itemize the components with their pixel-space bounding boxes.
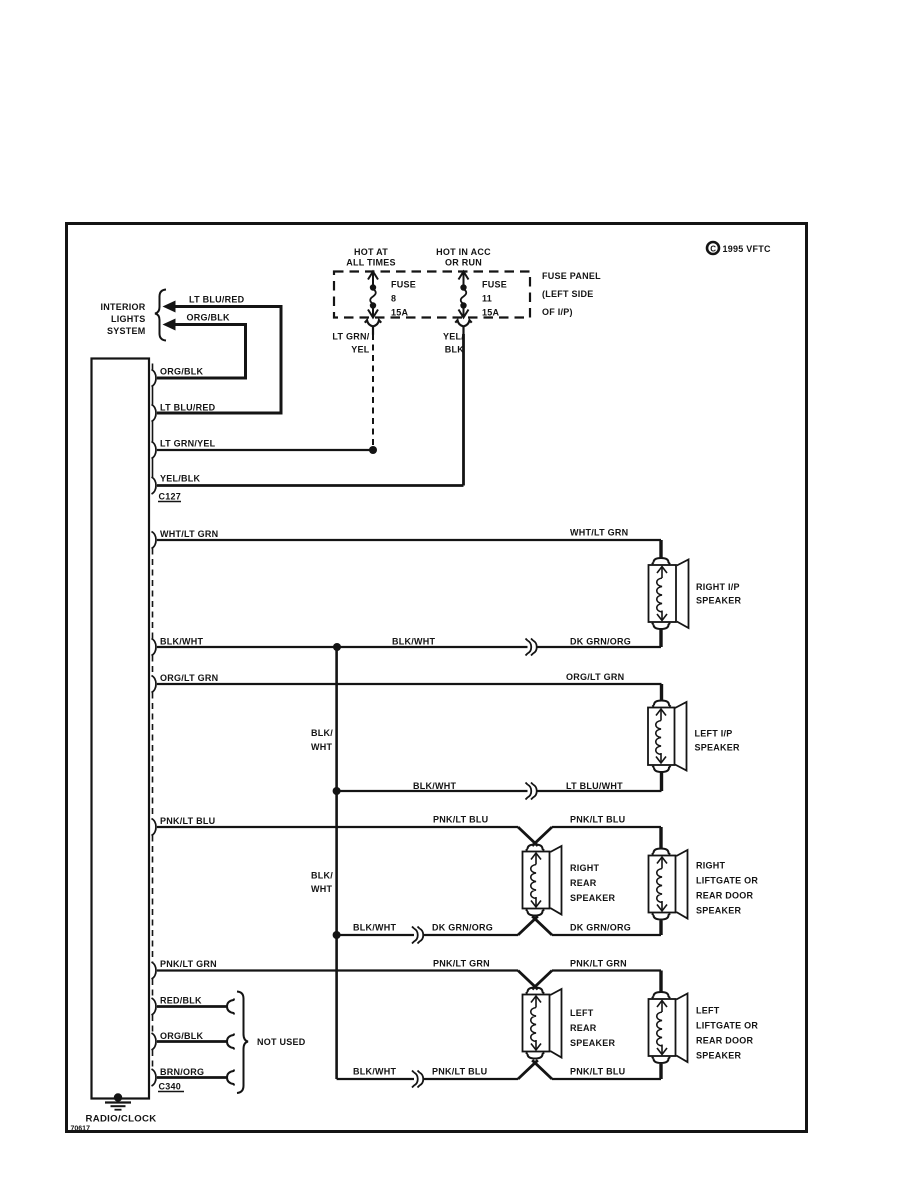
svg-text:70617: 70617 bbox=[71, 1126, 91, 1133]
label FUSE PANEL (LEFT SIDE OF I/P) bbox=[542, 271, 601, 317]
wire BLK/WHT vertical bus bbox=[335, 647, 338, 1079]
svg-text:WHT: WHT bbox=[311, 884, 332, 894]
wire diagonal from left rear speaker bottom left bbox=[518, 1060, 538, 1079]
svg-text:WHT: WHT bbox=[311, 742, 332, 752]
radio/clock box U1 bbox=[92, 359, 150, 1099]
connector C127 pin bumps bbox=[152, 370, 157, 495]
label HOT AT ALL TIMES bbox=[346, 247, 396, 268]
fuse F11 symbol bbox=[459, 272, 469, 318]
svg-text:ORG/BLK: ORG/BLK bbox=[160, 1031, 203, 1041]
svg-text:1995 VFTC: 1995 VFTC bbox=[723, 244, 772, 254]
ground bbox=[105, 1093, 131, 1109]
connector at left liftgate speaker top bbox=[652, 992, 670, 998]
wire BLK/WHT row3 bbox=[337, 934, 414, 936]
fuse panel dashed box bbox=[334, 272, 530, 318]
connector C340 label bbox=[158, 1082, 184, 1092]
wire PNK/LT GRN left bbox=[157, 969, 518, 971]
svg-text:LT BLU/WHT: LT BLU/WHT bbox=[566, 781, 623, 791]
svg-text:LIGHTS: LIGHTS bbox=[111, 314, 146, 324]
wire label YEL/ BLK bbox=[443, 332, 464, 355]
connector at left rear speaker top bbox=[526, 988, 544, 994]
svg-text:C127: C127 bbox=[159, 492, 182, 502]
wire PNK/LT BLU left bbox=[157, 826, 518, 828]
wire ORG/BLK not used bbox=[157, 1040, 228, 1043]
svg-text:RADIO/CLOCK: RADIO/CLOCK bbox=[86, 1114, 157, 1125]
terminal at BRN/ORG end bbox=[227, 1070, 234, 1086]
svg-text:C340: C340 bbox=[159, 1082, 182, 1092]
label BLK/ WHT upper bbox=[311, 728, 333, 752]
wire PNK/LT BLU row4 left bbox=[424, 1078, 518, 1080]
inline splice row4 bbox=[412, 1071, 423, 1088]
svg-text:SPEAKER: SPEAKER bbox=[696, 596, 742, 606]
wire LT BLU/WHT row2 bbox=[538, 790, 662, 792]
wire diagonal from left rear speaker bottom right bbox=[532, 1060, 552, 1079]
brace at interior lights system bbox=[155, 290, 166, 341]
svg-text:ORG/LT GRN: ORG/LT GRN bbox=[566, 672, 624, 682]
wire diagonal from right rear speaker bottom left bbox=[518, 916, 538, 935]
svg-text:8: 8 bbox=[391, 294, 396, 304]
svg-text:OF I/P): OF I/P) bbox=[542, 307, 573, 317]
wire diagonal from right rear speaker bottom right bbox=[532, 916, 552, 935]
connector C340 strip dashed line bbox=[152, 549, 154, 1070]
svg-text:DK GRN/ORG: DK GRN/ORG bbox=[570, 637, 631, 647]
svg-text:FUSE: FUSE bbox=[391, 280, 416, 290]
svg-text:PNK/LT BLU: PNK/LT BLU bbox=[433, 815, 488, 825]
brace not used group bbox=[237, 992, 248, 1094]
svg-text:DK GRN/ORG: DK GRN/ORG bbox=[570, 923, 631, 933]
svg-text:FUSE: FUSE bbox=[482, 280, 507, 290]
svg-text:11: 11 bbox=[482, 294, 492, 304]
junction dot LT GRN/YEL bbox=[369, 446, 377, 454]
svg-text:PNK/LT BLU: PNK/LT BLU bbox=[432, 1067, 487, 1077]
svg-text:PNK/LT BLU: PNK/LT BLU bbox=[570, 815, 625, 825]
svg-text:RED/BLK: RED/BLK bbox=[160, 996, 202, 1006]
fuse F11 output connector bbox=[455, 320, 471, 335]
svg-text:ORG/LT GRN: ORG/LT GRN bbox=[160, 673, 218, 683]
wire DK GRN/ORG row3 right bbox=[552, 934, 661, 936]
svg-text:LEFT: LEFT bbox=[696, 1006, 720, 1016]
wire from right I/P speaker bottom bbox=[659, 629, 662, 647]
terminal at ORG/BLK end bbox=[227, 1034, 234, 1050]
left rear speaker SP5 bbox=[523, 989, 562, 1058]
wire YEL/BLK horizontal bbox=[157, 484, 464, 487]
svg-text:REAR DOOR: REAR DOOR bbox=[696, 1036, 754, 1046]
wire diagonal into right rear speaker top bbox=[518, 827, 538, 846]
wire from right liftgate speaker bottom bbox=[659, 921, 662, 936]
svg-text:BLK/: BLK/ bbox=[311, 728, 333, 738]
svg-text:YEL: YEL bbox=[351, 345, 370, 355]
wire LT GRN/YEL dashed drop from fuse 8 bbox=[372, 334, 374, 446]
wire drop to right I/P speaker bbox=[659, 540, 662, 558]
wire ORG/BLK upper run bbox=[157, 325, 246, 379]
svg-text:HOT IN ACC: HOT IN ACC bbox=[436, 247, 491, 257]
svg-text:WHT/LT GRN: WHT/LT GRN bbox=[570, 528, 628, 538]
connector at left liftgate speaker bottom bbox=[652, 1057, 670, 1063]
svg-text:BLK/WHT: BLK/WHT bbox=[392, 637, 435, 647]
svg-text:BLK/: BLK/ bbox=[311, 871, 333, 881]
svg-text:LEFT: LEFT bbox=[570, 1008, 594, 1018]
inline splice row1 bbox=[526, 639, 537, 656]
junction dot BLK/WHT row2 bbox=[333, 787, 341, 795]
label LEFT LIFTGATE OR REAR DOOR SPEAKER bbox=[696, 1006, 758, 1061]
svg-text:BLK/WHT: BLK/WHT bbox=[413, 781, 456, 791]
connector at right rear speaker bottom bbox=[526, 909, 544, 915]
wire BLK/WHT row1 left bbox=[157, 646, 528, 648]
fuse F8 symbol bbox=[368, 272, 378, 318]
svg-text:REAR DOOR: REAR DOOR bbox=[696, 891, 754, 901]
wire LT GRN/YEL bbox=[157, 449, 373, 451]
connector C127 label bbox=[158, 492, 181, 502]
svg-text:SPEAKER: SPEAKER bbox=[696, 1051, 742, 1061]
svg-text:WHT/LT GRN: WHT/LT GRN bbox=[160, 529, 218, 539]
svg-text:FUSE PANEL: FUSE PANEL bbox=[542, 271, 601, 281]
svg-text:BRN/ORG: BRN/ORG bbox=[160, 1067, 204, 1077]
label LEFT REAR SPEAKER bbox=[570, 1008, 616, 1048]
left I/P speaker SP2 bbox=[648, 702, 687, 771]
svg-text:PNK/LT GRN: PNK/LT GRN bbox=[160, 959, 217, 969]
right rear speaker SP3 bbox=[523, 846, 562, 915]
wire from left liftgate speaker bottom bbox=[659, 1064, 662, 1079]
svg-text:RIGHT I/P: RIGHT I/P bbox=[696, 582, 740, 592]
wire BRN/ORG bbox=[157, 1076, 228, 1079]
label RIGHT LIFTGATE OR REAR DOOR SPEAKER bbox=[696, 861, 758, 916]
connector C127 strip line bbox=[152, 364, 154, 478]
fuse F11 label FUSE 11 15A bbox=[482, 280, 507, 318]
svg-text:LIFTGATE OR: LIFTGATE OR bbox=[696, 1021, 758, 1031]
svg-text:SPEAKER: SPEAKER bbox=[570, 1038, 616, 1048]
svg-text:C: C bbox=[710, 244, 716, 253]
svg-text:LT GRN/YEL: LT GRN/YEL bbox=[160, 439, 216, 449]
wire RED/BLK bbox=[157, 1005, 228, 1008]
svg-text:LT BLU/RED: LT BLU/RED bbox=[189, 295, 245, 305]
junction dot BLK/WHT row3 bbox=[333, 931, 341, 939]
svg-text:ALL TIMES: ALL TIMES bbox=[346, 258, 396, 268]
fuse F8 label FUSE 8 15A bbox=[391, 280, 416, 318]
wire from left I/P speaker bottom bbox=[660, 772, 663, 791]
svg-text:YEL/: YEL/ bbox=[443, 332, 464, 342]
svg-text:BLK/WHT: BLK/WHT bbox=[160, 637, 203, 647]
label INTERIOR LIGHTS SYSTEM bbox=[100, 302, 145, 336]
svg-text:SPEAKER: SPEAKER bbox=[695, 743, 741, 753]
label RIGHT I/P SPEAKER bbox=[696, 582, 742, 606]
svg-text:REAR: REAR bbox=[570, 878, 597, 888]
connector at right liftgate speaker top bbox=[652, 849, 670, 855]
wire drop to left liftgate speaker bbox=[659, 971, 662, 992]
wire diagonal from right rear speaker top bbox=[532, 827, 552, 846]
svg-text:SPEAKER: SPEAKER bbox=[696, 906, 742, 916]
label BLK/ WHT lower bbox=[311, 871, 333, 895]
right liftgate speaker SP4 bbox=[649, 850, 688, 919]
arrow LT BLU/RED to interior lights bbox=[163, 301, 176, 313]
border frame bbox=[67, 224, 807, 1132]
wire LT BLU/RED upper run bbox=[157, 307, 281, 414]
svg-text:BLK/WHT: BLK/WHT bbox=[353, 923, 396, 933]
svg-text:RIGHT: RIGHT bbox=[570, 863, 600, 873]
svg-text:15A: 15A bbox=[391, 308, 409, 318]
svg-text:ORG/BLK: ORG/BLK bbox=[187, 313, 230, 323]
wire WHT/LT GRN bbox=[157, 539, 661, 541]
wire drop to right liftgate speaker bbox=[659, 827, 662, 848]
svg-text:SYSTEM: SYSTEM bbox=[107, 326, 146, 336]
svg-text:PNK/LT BLU: PNK/LT BLU bbox=[570, 1067, 625, 1077]
inline splice row2 bbox=[526, 783, 537, 800]
label RIGHT REAR SPEAKER bbox=[570, 863, 616, 903]
wire label LT GRN/ YEL bbox=[332, 332, 369, 355]
left liftgate speaker SP6 bbox=[649, 994, 688, 1063]
connector at right I/P speaker bottom bbox=[652, 623, 670, 629]
wire BLK/WHT row2 bbox=[337, 790, 528, 792]
svg-text:LIFTGATE OR: LIFTGATE OR bbox=[696, 876, 758, 886]
wire diagonal into left rear speaker top bbox=[518, 971, 538, 990]
svg-text:15A: 15A bbox=[482, 308, 500, 318]
label HOT IN ACC OR RUN bbox=[436, 247, 491, 268]
svg-text:PNK/LT GRN: PNK/LT GRN bbox=[570, 959, 627, 969]
svg-text:ORG/BLK: ORG/BLK bbox=[160, 367, 203, 377]
wire YEL/BLK drop from fuse 11 bbox=[462, 334, 465, 486]
svg-text:BLK/WHT: BLK/WHT bbox=[353, 1067, 396, 1077]
svg-text:INTERIOR: INTERIOR bbox=[100, 302, 145, 312]
wire PNK/LT BLU to liftgate bbox=[552, 826, 661, 828]
svg-text:PNK/LT BLU: PNK/LT BLU bbox=[160, 816, 215, 826]
svg-text:OR RUN: OR RUN bbox=[445, 258, 482, 268]
arrow ORG/BLK to interior lights bbox=[163, 319, 176, 331]
wire diagonal from left rear speaker top bbox=[532, 971, 552, 990]
wire drop to left I/P speaker bbox=[660, 684, 663, 701]
connector at left rear speaker bottom bbox=[526, 1052, 544, 1058]
svg-text:PNK/LT GRN: PNK/LT GRN bbox=[433, 959, 490, 969]
fuse F8 output connector bbox=[365, 320, 381, 335]
connector at right rear speaker top bbox=[526, 845, 544, 851]
svg-text:SPEAKER: SPEAKER bbox=[570, 893, 616, 903]
wire DK GRN/ORG row1 bbox=[538, 646, 662, 648]
wire ORG/LT GRN bbox=[157, 683, 662, 685]
wire DK GRN/ORG row3 left bbox=[424, 934, 518, 936]
svg-text:REAR: REAR bbox=[570, 1023, 597, 1033]
connector at left I/P speaker top bbox=[652, 701, 670, 707]
label LEFT I/P SPEAKER bbox=[695, 729, 741, 753]
junction dot BLK/WHT row1 bbox=[333, 643, 341, 651]
wire PNK/LT BLU row4 right bbox=[552, 1078, 661, 1080]
svg-text:BLK: BLK bbox=[445, 345, 464, 355]
connector at left I/P speaker bottom bbox=[652, 766, 670, 772]
wire PNK/LT GRN to liftgate bbox=[552, 969, 661, 971]
connector at right liftgate speaker bottom bbox=[652, 913, 670, 919]
svg-text:DK GRN/ORG: DK GRN/ORG bbox=[432, 923, 493, 933]
terminal at RED/BLK end bbox=[227, 999, 234, 1015]
svg-text:HOT AT: HOT AT bbox=[354, 247, 388, 257]
svg-text:LEFT I/P: LEFT I/P bbox=[695, 729, 733, 739]
svg-text:LT BLU/RED: LT BLU/RED bbox=[160, 403, 216, 413]
inline splice row3 bbox=[412, 927, 423, 944]
svg-text:YEL/BLK: YEL/BLK bbox=[160, 474, 201, 484]
svg-text:(LEFT SIDE: (LEFT SIDE bbox=[542, 289, 594, 299]
copyright symbol bbox=[707, 242, 719, 254]
wire BLK/WHT row4 bbox=[337, 1078, 414, 1080]
svg-text:RIGHT: RIGHT bbox=[696, 861, 726, 871]
connector at right I/P speaker top bbox=[652, 558, 670, 564]
svg-text:LT GRN/: LT GRN/ bbox=[332, 332, 369, 342]
svg-text:NOT USED: NOT USED bbox=[257, 1037, 306, 1047]
right I/P speaker SP1 bbox=[649, 560, 689, 629]
connector C340 pin bumps bbox=[152, 532, 157, 1087]
